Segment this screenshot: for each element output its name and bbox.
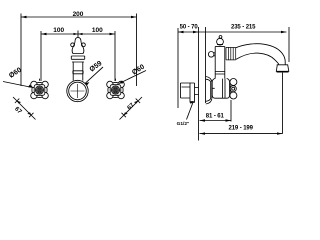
spout tube lower bbox=[236, 53, 279, 65]
spout curl left bbox=[71, 43, 75, 47]
extension line right 200 bbox=[136, 14, 138, 87]
leader O59 bbox=[85, 67, 103, 83]
outlet cup bbox=[276, 65, 289, 72]
svg-text:100: 100 bbox=[53, 27, 64, 34]
extension line 100 right bbox=[114, 31, 116, 81]
pipe to wall bbox=[195, 83, 199, 103]
arrows 50-70 bbox=[178, 31, 199, 33]
dim 67 left line bbox=[13, 97, 36, 120]
column top bbox=[215, 46, 225, 48]
escutcheon circle O59 outer bbox=[67, 80, 88, 101]
dim 219-199 line bbox=[200, 133, 283, 135]
spout curl right bbox=[82, 43, 86, 47]
extension line left 200 bbox=[20, 14, 22, 87]
svg-text:200: 200 bbox=[73, 11, 84, 18]
dim 67 right ticks bbox=[122, 99, 141, 118]
valve body side bbox=[212, 78, 229, 98]
dimension 200 arrows bbox=[21, 16, 137, 18]
spout tube upper bbox=[236, 44, 286, 65]
svg-text:G1/2": G1/2" bbox=[177, 121, 190, 127]
spout rings bbox=[226, 47, 236, 60]
dimension 100 arrows bbox=[41, 33, 115, 35]
handle side bbox=[230, 79, 237, 86]
svg-text:235 - 215: 235 - 215 bbox=[231, 24, 256, 30]
dimension 200 line bbox=[21, 16, 137, 18]
dimension 100-100 line bbox=[41, 33, 115, 35]
ball finial bbox=[217, 38, 224, 45]
left handle bbox=[31, 79, 49, 99]
cross mark bbox=[71, 84, 85, 98]
svg-text:67: 67 bbox=[13, 106, 23, 116]
spout flange rings bbox=[71, 54, 84, 63]
wall back line bbox=[198, 27, 200, 141]
spout column ring bbox=[73, 71, 83, 74]
leader O60 left bbox=[3, 82, 33, 88]
escutcheon side bbox=[206, 77, 212, 83]
svg-text:219 - 199: 219 - 199 bbox=[228, 126, 253, 132]
wall front line bbox=[205, 27, 207, 103]
leader O60 right bbox=[119, 71, 146, 84]
extension line x231 bbox=[230, 100, 232, 122]
spout bell body bbox=[72, 43, 84, 54]
in-wall fitting bbox=[181, 83, 195, 103]
extension line outlet bbox=[282, 73, 284, 134]
svg-text:Ø59: Ø59 bbox=[89, 60, 104, 74]
dim 67 right line bbox=[120, 97, 143, 120]
spout column bbox=[73, 62, 83, 81]
extension line x178 bbox=[177, 28, 179, 108]
column bbox=[215, 47, 225, 79]
arrow 235-215 right bbox=[281, 31, 287, 33]
extension line right top bbox=[288, 27, 290, 62]
dim 67 left ticks bbox=[15, 99, 34, 118]
escutcheon circle O59 inner bbox=[69, 82, 87, 100]
svg-text:100: 100 bbox=[92, 27, 103, 34]
center tick bbox=[77, 31, 79, 38]
dim 81-61 line bbox=[200, 120, 232, 122]
svg-text:67: 67 bbox=[126, 101, 136, 111]
G1/2 leader bbox=[187, 101, 194, 120]
svg-text:50 - 70: 50 - 70 bbox=[180, 25, 199, 31]
column rings bbox=[215, 72, 225, 75]
top dim line bbox=[178, 31, 287, 33]
svg-text:81 - 61: 81 - 61 bbox=[206, 113, 225, 119]
right handle bbox=[107, 79, 125, 99]
extension line 100 left bbox=[40, 31, 42, 81]
svg-text:Ø60: Ø60 bbox=[131, 63, 146, 76]
spout finial dome bbox=[75, 37, 81, 42]
left knob bbox=[208, 52, 214, 58]
